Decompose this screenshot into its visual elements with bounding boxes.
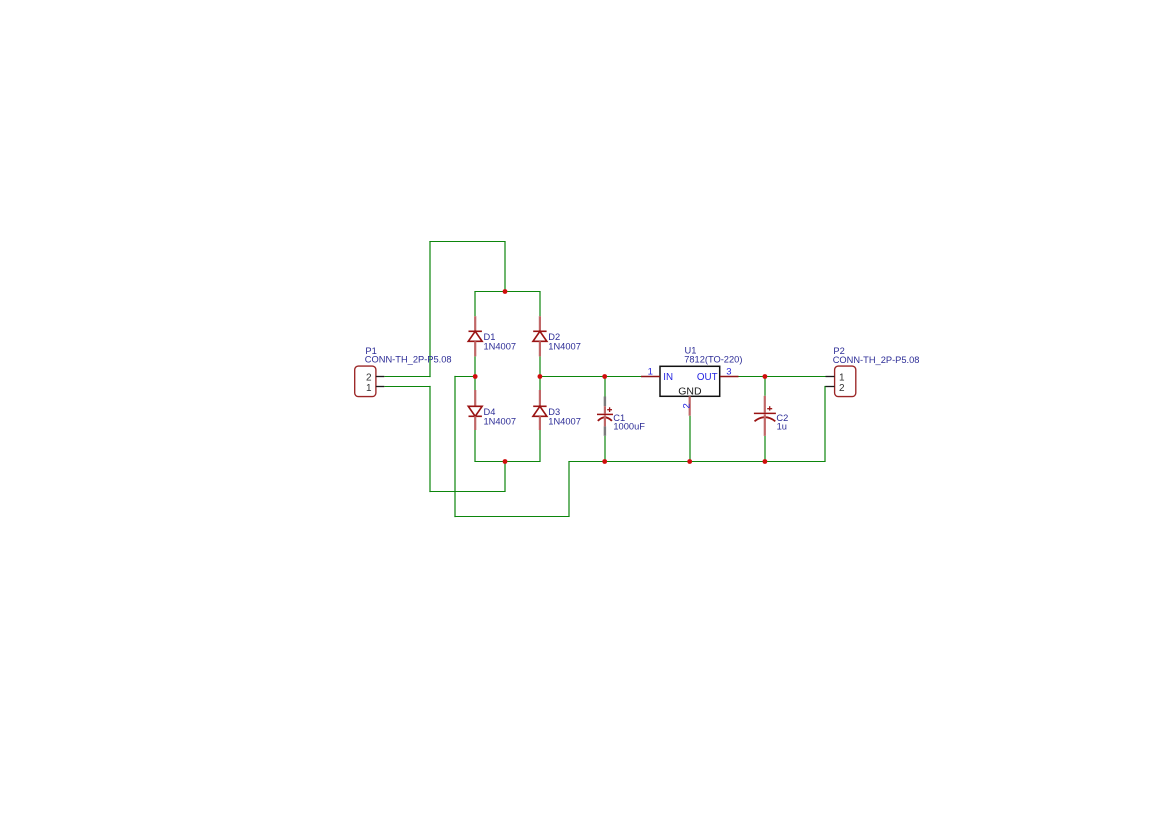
wire C2 top	[764, 377, 766, 396]
svg-text:1N4007: 1N4007	[548, 341, 581, 351]
svg-text:OUT: OUT	[697, 372, 718, 383]
wire lower detour vertical up at x569	[568, 462, 570, 517]
diode D4	[468, 390, 482, 430]
svg-text:2: 2	[839, 383, 845, 394]
wire net B: P1 pin1 right segment	[384, 386, 430, 388]
junction node mid right	[538, 374, 543, 379]
svg-text:3: 3	[726, 366, 731, 377]
junction node C2 bottom	[763, 459, 768, 464]
wire C2 bottom	[764, 436, 766, 462]
diode D3	[533, 390, 547, 430]
wire D3 column bottom	[539, 430, 541, 462]
svg-text:1: 1	[648, 366, 653, 377]
svg-text:1N4007: 1N4007	[484, 341, 517, 351]
junction node U1 GND	[687, 459, 692, 464]
wire D2 column top	[539, 292, 541, 317]
wire ground rail	[568, 461, 825, 463]
diode D1	[468, 316, 482, 356]
capacitor C2	[754, 396, 776, 436]
svg-text:1N4007: 1N4007	[548, 416, 581, 426]
wire P2 pin2 drop vertical	[824, 386, 826, 462]
wire net A: top horizontal	[429, 241, 505, 243]
wire net A: P1 pin2 right segment	[384, 376, 430, 378]
wire mid-left stub	[454, 376, 475, 378]
capacitor C1	[597, 397, 613, 436]
svg-text:GND: GND	[678, 385, 702, 397]
wire C1 top	[604, 377, 606, 397]
junction node bridge top	[503, 289, 508, 294]
wire mid-left vertical at x455	[454, 376, 456, 517]
svg-text:2: 2	[681, 403, 692, 408]
wire bridge bottom horizontal	[474, 461, 540, 463]
svg-text:CONN-TH_2P-P5.08: CONN-TH_2P-P5.08	[365, 355, 452, 365]
wire D4 column bottom	[474, 430, 476, 462]
junction node bridge bottom	[503, 459, 508, 464]
diode D2	[533, 316, 547, 356]
svg-text:1N4007: 1N4007	[484, 416, 517, 426]
wire net A: vertical up at x430	[429, 241, 431, 377]
connector P2	[826, 366, 856, 397]
svg-text:1u: 1u	[777, 421, 787, 431]
junction node mid left	[473, 374, 478, 379]
wire lower detour horizontal	[454, 516, 569, 518]
wire D1 column top	[474, 292, 476, 317]
junction node C1 top	[602, 374, 607, 379]
junction node C1 bottom	[602, 459, 607, 464]
wire D2-D3 column middle	[539, 356, 541, 390]
svg-text:CONN-TH_2P-P5.08: CONN-TH_2P-P5.08	[833, 355, 920, 365]
wire D1-D4 column middle	[474, 356, 476, 390]
svg-text:1: 1	[366, 383, 372, 394]
wire C1 bottom	[604, 436, 606, 462]
wire bridge top horizontal	[474, 291, 540, 293]
connector P1	[355, 366, 385, 397]
wire net A: vertical down to bridge top	[504, 242, 506, 292]
wire U1 GND bottom	[689, 416, 691, 462]
junction node C2 top	[763, 374, 768, 379]
wire net B: vertical up to bridge bottom	[504, 462, 506, 492]
svg-text:1000uF: 1000uF	[613, 421, 645, 431]
svg-text:IN: IN	[663, 372, 673, 383]
wire main rail left segment	[540, 376, 641, 378]
wire net B: bottom horizontal	[429, 491, 505, 493]
svg-text:7812(TO-220): 7812(TO-220)	[684, 355, 742, 365]
wire main rail right segment	[739, 376, 826, 378]
IC U1 regulator	[641, 366, 739, 415]
wire net B: vertical down at x430	[429, 386, 431, 492]
